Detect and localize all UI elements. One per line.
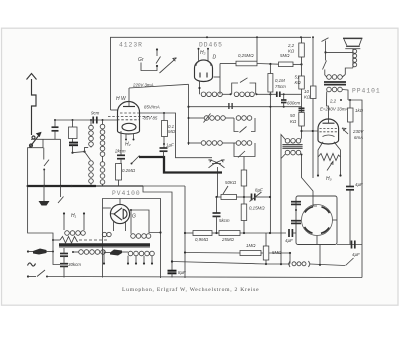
- svg-text:H₁: H₁: [71, 213, 77, 219]
- resistor 0.15M: [241, 204, 247, 221]
- wire anode feed drop: [219, 64, 221, 95]
- svg-text:4µF: 4µF: [285, 238, 293, 243]
- wire PV box top: [103, 199, 161, 279]
- fuse secondary: [110, 250, 122, 256]
- svg-text:1MΩ: 1MΩ: [246, 243, 256, 248]
- wire 5M to 2.2K node: [293, 63, 302, 65]
- node grid line joints: [54, 119, 56, 121]
- svg-text:MΩ: MΩ: [168, 129, 176, 134]
- svg-text:PP4101: PP4101: [352, 88, 381, 95]
- svg-text:2,2: 2,2: [287, 43, 295, 48]
- tube PP4101 grid: [320, 128, 338, 130]
- wire antenna cap top: [54, 120, 56, 127]
- svg-text:PV4100: PV4100: [112, 190, 141, 197]
- inductor row A box coil: [234, 92, 239, 97]
- capacitor 8uF electrolytic: [168, 270, 177, 272]
- tube PV4100 filament: [114, 208, 122, 220]
- wire PV anode left stub: [103, 207, 111, 209]
- svg-text:600cm: 600cm: [287, 101, 301, 106]
- wire grid top line: [55, 119, 118, 121]
- svg-text:4123R: 4123R: [119, 42, 143, 49]
- transformer secondary coil right: [128, 251, 133, 256]
- wire chassis bold line: [28, 185, 96, 187]
- wire motor top lead: [313, 202, 317, 206]
- capacitor 75cm series row A: [276, 92, 278, 98]
- wire mid line: [189, 106, 302, 108]
- wire motor box drop: [319, 245, 321, 265]
- wire row 253: [185, 252, 240, 255]
- antenna plug connector: [32, 136, 35, 139]
- wire resistor top: [163, 113, 165, 121]
- wire HT branch: [143, 186, 172, 270]
- svg-text:H W: H W: [116, 96, 127, 102]
- transformer output core: [324, 81, 346, 83]
- wire row B to box: [225, 117, 234, 119]
- wire bold HT: [139, 157, 222, 173]
- svg-text:9cm: 9cm: [91, 111, 100, 116]
- wire anode supply line: [129, 84, 189, 88]
- tube PP4101 envelope: [318, 119, 339, 144]
- svg-text:DD465: DD465: [199, 42, 223, 49]
- svg-text:5MΩ: 5MΩ: [272, 250, 282, 255]
- wire secondary right: [342, 90, 348, 101]
- wire PV anode line: [130, 210, 161, 233]
- svg-text:KΩ: KΩ: [288, 49, 295, 54]
- capacitor series mid line: [228, 103, 230, 109]
- capacitor 9cm series in grid line: [92, 117, 94, 124]
- resistor mains zigzag: [60, 237, 78, 244]
- svg-text:0.2MΩ: 0.2MΩ: [122, 168, 136, 173]
- resistor 5M column: [265, 233, 267, 246]
- capacitor 4uF bottom right: [351, 241, 353, 249]
- inductor grid coil lower right: [100, 162, 105, 167]
- svg-text:KΩ: KΩ: [304, 95, 311, 100]
- transformer mains primary coil: [65, 231, 70, 236]
- wire speaker to output transformer: [345, 68, 353, 75]
- resistor 5M: [279, 62, 294, 67]
- wire left bus: [72, 120, 74, 127]
- inductor row C second coil: [236, 141, 241, 146]
- tube DD465 heater stubs: [198, 49, 200, 61]
- capacitor 4uF to motor box: [288, 229, 290, 237]
- tube 4123R envelope: [118, 102, 140, 135]
- motor arcs: [305, 207, 313, 213]
- mains fuse: [27, 250, 29, 252]
- wire motor bottom lead: [316, 236, 318, 245]
- node top line joints: [206, 36, 208, 38]
- wire 270 bus down: [269, 107, 271, 233]
- wire cap to resistor: [119, 159, 122, 164]
- tube 4123R anode: [123, 106, 135, 108]
- svg-text:0,9MΩ: 0,9MΩ: [195, 237, 209, 242]
- inductor antenna coil col1 upper: [89, 125, 94, 130]
- svg-text:5kcm: 5kcm: [219, 218, 230, 223]
- wire speaker line horiz: [326, 51, 353, 53]
- wire to frame right: [348, 100, 362, 278]
- svg-text:1µF: 1µF: [166, 143, 174, 148]
- switch wave selector: [71, 152, 73, 154]
- switch cathode lever: [132, 156, 140, 164]
- capacitor antenna series: [52, 126, 59, 128]
- inductor antenna coil col2 upper: [100, 124, 105, 129]
- resistor 0.2M: [116, 164, 122, 181]
- capacitor 500cm on 51K line: [299, 107, 305, 109]
- svg-text:51: 51: [295, 75, 300, 80]
- resistor upper 0.15M column: [241, 170, 247, 186]
- wire cap to bold: [163, 151, 165, 157]
- wire lever to coil1 lower: [85, 152, 91, 160]
- resistor 51K: [299, 76, 305, 89]
- label AC: [28, 263, 36, 266]
- switch speaker line top: [322, 38, 329, 42]
- svg-text:4µF: 4µF: [352, 252, 360, 257]
- wire resistor to chassis: [118, 180, 120, 186]
- svg-text:Lumophon, Erlgraf W, Wechselst: Lumophon, Erlgraf W, Wechselstrom, 2 Kre…: [122, 286, 259, 293]
- inductor row B coil: [204, 116, 209, 121]
- node Gr switch top: [156, 48, 158, 50]
- svg-text:Gr: Gr: [138, 57, 144, 63]
- wire PV bottom leads: [113, 222, 115, 231]
- switch row B box: [234, 118, 239, 132]
- tube PV4100 envelope: [110, 204, 129, 223]
- wire 1K down: [349, 100, 351, 108]
- heater H2 stubs: [125, 134, 127, 139]
- resistor 50K horizontal: [215, 196, 217, 198]
- switch Gr lever: [156, 57, 161, 64]
- antenna: [32, 79, 37, 135]
- inductor row B box coil: [236, 116, 241, 121]
- switch lamp line: [346, 258, 354, 266]
- wire motor right lead: [333, 219, 338, 221]
- motor circle: [302, 205, 333, 236]
- capacitor 5kcm: [216, 197, 218, 213]
- switch row C box: [234, 143, 255, 157]
- svg-text:4µF: 4µF: [355, 182, 363, 187]
- wire top box left corner to tube: [111, 109, 118, 111]
- svg-text:25MΩ: 25MΩ: [221, 237, 235, 242]
- svg-text:KΩ: KΩ: [295, 80, 302, 85]
- inductor row C coil: [201, 141, 206, 146]
- transformer secondary coil left: [79, 250, 84, 255]
- svg-text:2kcm: 2kcm: [114, 149, 126, 154]
- switch speaker line lower: [323, 61, 327, 70]
- wire grid feed: [302, 130, 319, 132]
- tube 4123R cathode: [122, 123, 136, 130]
- heater small coil: [102, 232, 106, 236]
- wire 0.1M bottom: [269, 92, 271, 107]
- svg-text:0,15MΩ: 0,15MΩ: [249, 206, 265, 211]
- svg-text:H₃: H₃: [326, 176, 332, 182]
- transformer IF secondary: [285, 150, 290, 155]
- resistor 0.9M row: [193, 231, 212, 236]
- wire Gr link: [141, 63, 157, 71]
- svg-text:8µF: 8µF: [255, 188, 263, 193]
- switch hum arrow: [327, 162, 333, 171]
- resistor 2.2K: [301, 37, 303, 43]
- wire DD465 anode stub: [214, 76, 221, 78]
- wire mains link: [28, 186, 60, 265]
- resistor 1K output: [348, 108, 354, 122]
- resistor 0.1M detector: [269, 64, 271, 74]
- svg-text:6mA: 6mA: [354, 135, 363, 140]
- wire Gr arrow: [160, 58, 177, 73]
- wire branch to chassis: [28, 139, 43, 186]
- wire coil2 top: [102, 120, 104, 124]
- wire resistor bottom: [163, 137, 165, 148]
- wire detector bus: [188, 84, 190, 145]
- svg-text:30kcm: 30kcm: [68, 262, 81, 267]
- svg-text:230V: 230V: [352, 129, 364, 134]
- svg-text:1kΩ: 1kΩ: [355, 108, 364, 113]
- svg-text:85V/mA: 85V/mA: [144, 105, 160, 110]
- wire box bottom line: [337, 244, 362, 246]
- wire cap drop: [60, 139, 62, 186]
- svg-text:H₂: H₂: [125, 142, 131, 148]
- wire secondary taps: [103, 250, 105, 263]
- lamp coil: [289, 261, 291, 267]
- capacitor padder: [69, 142, 78, 144]
- svg-text:10: 10: [304, 89, 309, 94]
- transformer core: [59, 243, 150, 246]
- wire antenna feed: [31, 138, 61, 140]
- motor box: [296, 196, 337, 245]
- wire 2.2K to 51K: [301, 57, 303, 76]
- wire bottom rail: [47, 277, 362, 278]
- wire right bus 313: [312, 37, 314, 86]
- wire cap down: [349, 190, 351, 245]
- resistor 10K: [311, 86, 317, 99]
- svg-text:2,2: 2,2: [329, 99, 337, 104]
- svg-text:0,25MΩ: 0,25MΩ: [238, 53, 254, 58]
- resistor 50K: [299, 113, 305, 127]
- wire Gr switch stem: [156, 50, 158, 57]
- wire feed drop from top: [256, 37, 258, 61]
- resistor 25M row: [219, 231, 240, 236]
- tube PP4101 anode: [323, 122, 335, 124]
- wire to resistor 0.25M: [220, 63, 236, 65]
- wire to coil1: [85, 148, 89, 152]
- wire chassis extension: [143, 185, 185, 187]
- capacitor tuning gang: [217, 167, 219, 197]
- wire row A right: [256, 93, 277, 95]
- resistor 0.25M: [236, 61, 257, 66]
- node Gr switch bottom: [156, 65, 158, 67]
- inductor row A coil: [201, 92, 206, 97]
- resistor anode load 0.1M: [162, 121, 168, 137]
- svg-text:KΩ: KΩ: [290, 119, 297, 124]
- transformer output primary: [327, 75, 332, 80]
- tube 4123R grid dashes: [120, 112, 139, 114]
- switch branch: [43, 148, 45, 160]
- tube PP4101 cathode: [323, 135, 335, 137]
- svg-text:75cm: 75cm: [275, 84, 286, 89]
- svg-text:H₂: H₂: [200, 50, 206, 56]
- wire DD465 cathode drop: [199, 81, 201, 94]
- transformer output secondary: [327, 87, 332, 92]
- capacitor box left upper: [291, 201, 301, 203]
- switch row A box: [232, 83, 238, 94]
- capacitor 600cm: [283, 94, 285, 99]
- capacitor 1uF: [160, 147, 168, 149]
- resistor series antenna box: [69, 127, 78, 139]
- wire coil bottoms: [90, 183, 92, 186]
- speaker coil: [352, 49, 354, 68]
- tube PP4101 filament flares: [318, 142, 323, 175]
- wire secondary left to tube: [327, 92, 329, 120]
- wire lamp line: [172, 262, 290, 265]
- wire row 233: [185, 232, 193, 234]
- svg-text:E=240V 33mA: E=240V 33mA: [320, 107, 349, 112]
- tube PV4100 anode: [123, 209, 127, 218]
- svg-text:D: D: [213, 55, 217, 61]
- svg-text:50KΩ: 50KΩ: [225, 180, 237, 185]
- transformer IF core: [282, 144, 302, 146]
- wire PV top lead: [119, 199, 121, 205]
- heater H1 stubs: [63, 212, 65, 214]
- wire top box line: [111, 37, 312, 110]
- wire row A to box: [222, 93, 231, 95]
- switch mains: [27, 275, 29, 277]
- svg-text:G: G: [132, 214, 136, 220]
- capacitor 8uF with arrow: [244, 196, 251, 198]
- ground: [43, 186, 45, 201]
- wire cathode drop: [120, 131, 122, 155]
- svg-text:5MΩ: 5MΩ: [280, 53, 290, 58]
- speaker: [343, 37, 362, 39]
- switch chassis lever: [60, 186, 62, 197]
- wire between resistors: [257, 63, 279, 66]
- wire 51K down: [301, 89, 303, 112]
- capacitor box left lower: [291, 220, 301, 222]
- tube DD465 envelope: [195, 60, 213, 82]
- svg-text:8µF: 8µF: [178, 270, 186, 275]
- svg-text:-85V 85: -85V 85: [142, 116, 158, 121]
- capacitor 4uF right: [346, 186, 354, 188]
- switch row B arrow: [204, 114, 211, 123]
- tube DD465 diode plates: [199, 73, 201, 78]
- wire grid line to resistor: [140, 113, 213, 158]
- resistor hum zigzag: [318, 154, 341, 161]
- inductor grid coil lower left: [89, 161, 94, 166]
- svg-text:0,1M: 0,1M: [275, 78, 285, 83]
- svg-text:50: 50: [290, 113, 295, 118]
- wire 313 down: [312, 99, 314, 179]
- wire IF leads: [281, 135, 285, 265]
- capacitor 2kcm: [117, 154, 125, 156]
- capacitor mains pair: [60, 253, 68, 255]
- node chassis: [43, 185, 45, 187]
- transformer HV coil: [131, 234, 136, 239]
- transformer IF primary: [285, 139, 290, 144]
- resistor 1M row: [240, 251, 261, 256]
